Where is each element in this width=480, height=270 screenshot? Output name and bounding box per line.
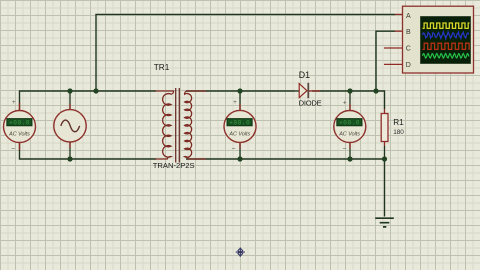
svg-text:A: A — [406, 13, 411, 20]
node: primary top / scope A junction — [93, 88, 98, 93]
svg-text:+00.0: +00.0 — [339, 120, 360, 127]
TR1 primary winding — [156, 91, 174, 159]
svg-text:D: D — [406, 62, 411, 69]
wire: ground wire from bottom rail — [384, 159, 386, 217]
trace: channel A (yellow square wave) — [423, 23, 470, 28]
wire: oscilloscope pin A stub — [395, 13, 403, 15]
node: secondary bottom / voltmeter U2 junction — [237, 156, 242, 161]
svg-text:−: − — [231, 146, 235, 153]
node: primary top / AC source junction — [67, 88, 72, 93]
svg-text:D1: D1 — [299, 70, 310, 80]
svg-text:180: 180 — [393, 129, 404, 136]
ground symbol — [375, 218, 394, 227]
node: secondary bottom / ground junction — [382, 156, 387, 161]
wire: U2 red pin segments — [239, 104, 241, 149]
svg-text:AC Volts: AC Volts — [8, 132, 30, 138]
svg-text:+: + — [12, 99, 16, 106]
wire: AC source red pin segments — [69, 104, 71, 148]
wire: oscilloscope pin B stub — [395, 30, 403, 32]
voltmeter U3 (AC Volts, output) — [334, 111, 366, 143]
node: secondary top / voltmeter U2 junction — [237, 88, 242, 93]
svg-text:AC Volts: AC Volts — [338, 132, 360, 138]
node: secondary bottom / voltmeter U3 junction — [347, 156, 352, 161]
oscilloscope screen — [421, 17, 471, 64]
svg-text:TRAN-2P2S: TRAN-2P2S — [153, 161, 195, 170]
AC voltage source V1 — [54, 110, 86, 142]
TR1 core — [176, 88, 180, 163]
oscilloscope body — [403, 6, 474, 73]
diode D1 — [295, 70, 322, 107]
node: secondary top / voltmeter U3 junction — [347, 88, 352, 93]
wire: AC source risers — [69, 91, 71, 159]
trace: channel D (green sine) — [423, 54, 469, 59]
wire: R1 bottom lead — [384, 146, 386, 159]
wire: primary bottom rail — [20, 142, 157, 159]
trace: channel B (blue wave) — [423, 32, 469, 39]
voltmeter U1 (AC Volts, primary input) — [4, 111, 36, 143]
oscilloscope pin D stub — [384, 63, 403, 65]
transformer TR1 — [153, 63, 206, 170]
wire: voltmeter U3 risers — [349, 91, 351, 159]
wire: secondary bottom rail — [186, 158, 385, 160]
wire: voltmeter U2 risers — [239, 91, 241, 159]
svg-text:B: B — [406, 29, 411, 36]
TR1 secondary winding — [185, 91, 206, 159]
wire: diode output to R1 top — [312, 91, 385, 109]
wire: oscilloscope channel B — [376, 31, 395, 91]
oscilloscope pin C stub — [384, 47, 403, 49]
svg-text:TR1: TR1 — [154, 63, 170, 72]
wire: voltmeter U1 risers — [19, 103, 21, 150]
svg-text:+00.0: +00.0 — [9, 120, 30, 127]
node: secondary top / scope B junction — [373, 88, 378, 93]
wire: secondary top rail — [186, 90, 295, 92]
svg-text:AC Volts: AC Volts — [228, 132, 250, 138]
trace: channel C (red square wave) — [423, 43, 470, 49]
node: primary bottom / AC source junction — [67, 156, 72, 161]
resistor R1 — [381, 109, 404, 146]
svg-text:R1: R1 — [393, 118, 404, 127]
oscilloscope (4-channel) — [384, 6, 474, 73]
svg-text:+: + — [233, 99, 237, 106]
wire: U3 red pin segments — [349, 104, 351, 149]
svg-text:+: + — [343, 100, 347, 107]
voltmeter U2 (AC Volts, secondary) — [224, 110, 256, 142]
svg-text:+00.0: +00.0 — [229, 120, 250, 127]
wire: top rail (primary tap to oscilloscope pin A) — [96, 14, 395, 91]
svg-text:−: − — [342, 146, 346, 153]
origin marker — [236, 248, 245, 257]
svg-text:C: C — [406, 46, 411, 53]
wire: primary top rail — [20, 91, 157, 111]
svg-text:DIODE: DIODE — [299, 98, 322, 107]
svg-text:−: − — [11, 146, 15, 153]
